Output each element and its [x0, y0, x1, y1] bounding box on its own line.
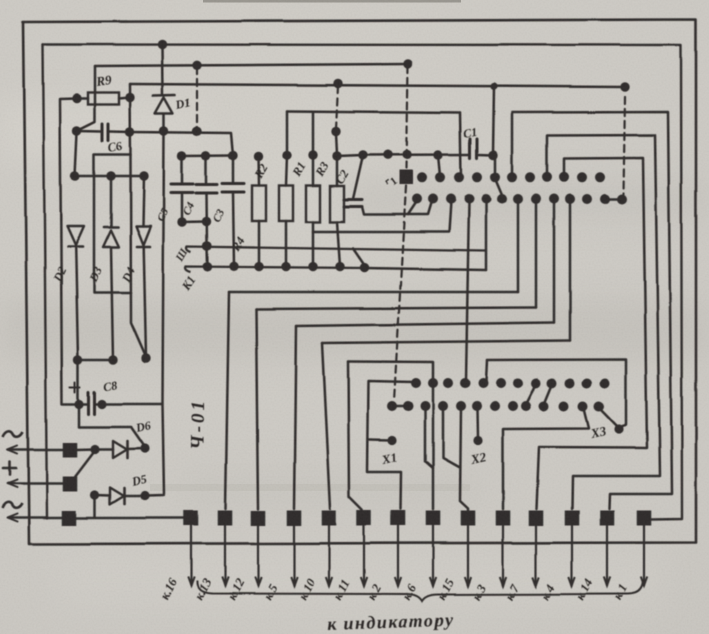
- wire D3 lead lower: [111, 247, 113, 360]
- node D3 bottom: [108, 355, 117, 364]
- capacitor C5: [181, 156, 184, 184]
- wire D4 lead lower: [144, 247, 146, 357]
- wire branch y154 to x94 down to y293: [94, 155, 131, 294]
- wire C1 right to pin: [478, 155, 496, 177]
- diode D5 cathode bar: [123, 488, 126, 504]
- wire P1 pin7 over top to pad k.14: [512, 112, 672, 509]
- node C5 top: [177, 151, 186, 160]
- wire C8 left gap lead: [83, 403, 88, 406]
- wire conn1 bottom pair bar: [605, 198, 622, 200]
- node end of bus y65: [403, 59, 412, 68]
- wire pad arrow k.6: [432, 525, 434, 586]
- wire lower rail y267 with hook: [186, 267, 365, 273]
- wire conn2 pi to X3: [487, 360, 626, 429]
- node D3 top: [106, 171, 115, 180]
- pad k.1: [637, 511, 652, 526]
- wire R4 top lead: [257, 156, 260, 186]
- wire pad arrow k.7: [535, 525, 537, 586]
- connector1 top row pins: [417, 172, 427, 182]
- wire R3 top lead: [336, 156, 339, 186]
- wire D6 anode lead: [95, 448, 113, 451]
- wire pad arrow k.15: [467, 525, 469, 586]
- wire pad arrow k.16: [190, 525, 192, 586]
- node y155 x388: [383, 150, 392, 159]
- wire pad k.15 riser: [460, 408, 468, 510]
- node C1 left: [433, 150, 442, 159]
- wire AC2 terminal line: [8, 516, 62, 519]
- label AC2 tilde: [2, 502, 22, 508]
- node lower rail x286: [281, 262, 290, 271]
- node bus y86 x494: [490, 83, 497, 90]
- pad k.4: [565, 511, 580, 526]
- wire W4 pad k.10 riser: [322, 343, 330, 509]
- wire D5 cathode lead: [125, 495, 145, 498]
- wire D1 bottom down to C8-right and D5 cathode: [147, 133, 164, 496]
- wire dashed x625: [624, 97, 626, 194]
- wire conn2 pin to k15 riser: [443, 408, 459, 467]
- pad k.16: [184, 511, 199, 526]
- diode D5 triangle: [110, 488, 124, 505]
- diode D4 triangle: [136, 226, 151, 245]
- diode D1 triangle: [155, 98, 173, 114]
- capacitor C2 plates: [344, 198, 362, 201]
- node R9 left terminal: [72, 94, 81, 103]
- node y155 x407 dashed: [402, 150, 411, 159]
- wire AC2 to pad k.16: [76, 517, 184, 520]
- wire R2 top lead: [286, 155, 287, 186]
- wire conn2 pin1 to pad k.2: [367, 381, 414, 509]
- resistor R2: [279, 186, 293, 222]
- wire W3 pad k.5 riser: [294, 326, 296, 509]
- diode D3 triangle: [103, 230, 119, 247]
- wire R9-left to x60 down to C8-left: [60, 99, 78, 405]
- wire conn2 pin jog to k6 line: [425, 408, 433, 468]
- pad k.7: [529, 511, 544, 526]
- outer border frame: [23, 20, 696, 545]
- diode D1 cathode bar: [153, 94, 175, 97]
- wire pad arrow k.14: [606, 525, 608, 586]
- wire plus terminal line: [8, 482, 63, 485]
- diode D2 cathode bar: [68, 245, 83, 248]
- pad k.14: [600, 511, 615, 526]
- capacitor C8 plus sign: [70, 386, 80, 388]
- wire dashed x197: [196, 67, 198, 129]
- wire second-border AC trace top and right to pad k.1: [43, 45, 682, 520]
- wire L1 left leg to R2 top: [286, 111, 289, 155]
- node D6 cathode: [140, 444, 149, 453]
- node lower rail x207: [203, 262, 212, 271]
- wire dashed x407 upper: [407, 66, 409, 168]
- wire pad arrow k.12: [257, 525, 259, 586]
- pad k.11: [357, 511, 372, 526]
- node y131 left: [72, 126, 81, 135]
- wire W4 riser to conn1 pin: [569, 201, 572, 341]
- wire C8 left leg down to D6 cathode: [79, 404, 145, 447]
- diode D6 triangle: [113, 441, 127, 458]
- wire R3 bottom lead: [337, 222, 340, 267]
- pad k.3: [496, 511, 511, 526]
- node R4 top: [254, 151, 263, 160]
- wire conn1-pin to conn2-pin x469: [466, 201, 469, 381]
- wire R4 bottom lead: [258, 221, 261, 267]
- wire C4 junction to lower rail: [206, 246, 209, 267]
- wire y131 from C6 right plate to C3 top: [110, 130, 131, 133]
- node D2 bottom: [73, 355, 82, 364]
- wire conn2 pi left leg: [486, 360, 487, 381]
- node R2 top: [282, 150, 291, 159]
- capacitor C3: [232, 156, 235, 184]
- capacitor C4: [205, 156, 208, 184]
- wire W2 horizontal: [256, 308, 536, 310]
- wire AC1 terminal line: [8, 448, 63, 451]
- node lower rail x234: [229, 262, 238, 271]
- node lower rail end: [360, 263, 369, 272]
- node junction on AC trace: [157, 40, 166, 49]
- pad k.5: [287, 511, 302, 526]
- node C8 right: [97, 399, 106, 408]
- wire stub x336 to R3 top node: [336, 133, 337, 154]
- wire pad arrow k.1: [643, 525, 645, 586]
- connector1 bottom row pins: [412, 194, 422, 204]
- wire D2 line upper: [75, 133, 77, 176]
- wire L1 mid leg to R1 top: [312, 112, 315, 155]
- pad k.10: [322, 511, 337, 526]
- wire R9 left lead: [77, 97, 88, 100]
- wire C2 bottom to pin2 riser: [362, 201, 432, 215]
- wire C1 right up to y86 bus: [493, 87, 494, 154]
- wire plus diagonal to D6 anode: [75, 452, 94, 477]
- wire conn1 diagonal pin6-pin6b: [495, 179, 503, 198]
- wire W3 horizontal: [296, 323, 554, 327]
- node D4 bottom: [141, 354, 150, 363]
- node dashed x338 bottom: [331, 126, 340, 135]
- wire bus y65: [95, 64, 408, 66]
- node D2 top: [70, 171, 79, 180]
- connector1 pin1 square pad: [400, 170, 414, 185]
- wire y232 from R1 bottom to pin3: [313, 201, 451, 232]
- wire W5 horizontal to pad k.6 drop: [348, 362, 433, 510]
- terminal AC2 arrowhead: [7, 514, 17, 522]
- wire pad arrow k.5: [293, 525, 295, 586]
- wire pad arrow k.4: [571, 525, 573, 586]
- wire y131 from D2-line to C6 left plate: [77, 130, 101, 133]
- pad k.2: [391, 511, 406, 526]
- node y131 D1 bottom: [159, 126, 168, 135]
- node R3 top: [332, 151, 341, 160]
- wire dashed x407 lower through pad 1: [394, 186, 406, 401]
- node bus y84 dashed drop: [333, 79, 342, 88]
- node C6 right junction: [125, 127, 134, 136]
- wire conn1-pin5 down x486: [485, 201, 488, 270]
- wire D5 anode to AC2 line: [94, 495, 97, 517]
- wire C5-C4 bottom link: [182, 220, 206, 223]
- terminal plus arrowhead: [7, 480, 17, 488]
- node D6 anode: [90, 445, 99, 454]
- wire C8 right lead to main vertical: [95, 403, 162, 406]
- wire D1 anode lead: [163, 114, 166, 129]
- wire R2 bottom lead: [285, 221, 288, 267]
- node on bus y65 at dashed drop: [192, 61, 201, 70]
- node D5 anode: [90, 490, 99, 499]
- diode D6 cathode bar: [126, 441, 129, 458]
- node X2: [473, 436, 482, 445]
- wire X1 stub: [369, 438, 392, 441]
- diode D3 cathode bar: [104, 226, 118, 229]
- wire pad arrow k.13: [224, 525, 226, 586]
- wire conn2 diagonal a: [526, 385, 536, 405]
- wire X3 diagonal: [599, 408, 618, 428]
- wire pad arrow k.2: [397, 525, 399, 586]
- wire L1 bus y112: [287, 111, 460, 113]
- wire W5 left leg to pad k.11: [348, 362, 362, 511]
- wire conn2 bottom pair bar: [392, 405, 408, 407]
- diode D2 triangle: [67, 226, 84, 245]
- capacitor C8 plates: [87, 392, 90, 414]
- wire W2 pad k.12 riser: [256, 309, 258, 509]
- wire D3 lead upper: [110, 176, 113, 226]
- pad AC1: [63, 443, 78, 458]
- wire W1 riser to conn1 pin: [517, 201, 520, 292]
- wire AC1 pad to D6 anode: [77, 448, 95, 451]
- capacitor C6 plates: [101, 124, 104, 141]
- wire pad arrow k.11: [363, 525, 365, 586]
- wire conn2 diagonal b: [544, 385, 552, 405]
- wire C8 left leg up to diode bottoms: [77, 360, 80, 404]
- wire bus y155 caps tops: [182, 154, 233, 157]
- wire rail diagonal link: [353, 249, 365, 267]
- diode D1 lead from AC trace: [161, 46, 164, 95]
- node D5 cathode: [140, 491, 149, 500]
- node bus y84 right end: [620, 82, 629, 91]
- node y131 dashed x197 bottom: [192, 127, 201, 136]
- node C2 top link: [358, 150, 367, 159]
- label AC1 tilde: [3, 431, 23, 437]
- diode D4 cathode bar: [137, 245, 150, 248]
- wire L1 right leg down to connector pin: [460, 113, 461, 178]
- wire W1 pad k.13 riser: [226, 292, 230, 509]
- node R1 top: [308, 150, 317, 159]
- wire pad arrow k.3: [502, 525, 504, 586]
- label plus sign: [3, 467, 16, 470]
- pad k.12: [251, 511, 266, 526]
- resistor R4: [252, 186, 266, 222]
- wire x130 vertical through R9 and C6 down to D4: [130, 84, 146, 357]
- wire bus y65 left corner to diagonal: [77, 66, 95, 131]
- wire W3 riser to conn1 pin: [553, 201, 556, 323]
- wire C1 left node to pin drop: [438, 155, 440, 176]
- brace to indicator: [197, 581, 643, 601]
- node lower rail x340: [335, 262, 344, 271]
- wire X2 stub: [476, 408, 479, 438]
- wire W2 riser to conn1 pin: [535, 201, 538, 308]
- node C4 upper-rail junction: [202, 241, 211, 250]
- wire R9 right lead: [119, 98, 130, 99]
- pad AC2: [62, 511, 77, 526]
- pad k.13: [218, 511, 233, 526]
- node C5 bottom: [177, 217, 186, 226]
- pad k.15: [461, 511, 476, 526]
- node lower rail x259: [254, 262, 263, 271]
- wire lower rail extension to x486: [365, 268, 486, 270]
- capacitor C1 plates: [469, 139, 472, 158]
- wire D6 cathode lead: [128, 447, 145, 450]
- terminal AC1 arrowhead: [7, 446, 17, 454]
- node C4 bottom: [202, 217, 211, 226]
- wire pad arrow k.10: [328, 525, 330, 586]
- wire P2 pin9 to pad k.4: [547, 135, 660, 509]
- resistor R9: [88, 93, 119, 105]
- connector2 bottom row pins: [387, 401, 397, 411]
- connector2 top row pins: [411, 378, 421, 388]
- wire pin1 diagonal to y214: [408, 201, 417, 215]
- node C1 right: [488, 150, 497, 159]
- node C3 top: [228, 151, 237, 160]
- wire diode top bus y176: [75, 175, 144, 178]
- wire W1 horizontal: [229, 291, 518, 294]
- resistor R1: [306, 186, 320, 223]
- wire y131 D1 bottom to corner x231 down to C3 top: [130, 132, 233, 156]
- wire R3top-C2top link: [337, 155, 363, 199]
- node X1: [387, 435, 396, 444]
- wire D2-D3 bottom bar: [78, 359, 113, 362]
- resistor R3: [330, 186, 344, 222]
- wire pad k.3 riser: [503, 408, 589, 509]
- wire D2 lead lower: [76, 247, 78, 360]
- node D4 top: [139, 171, 148, 180]
- wire R1 bottom lead: [312, 222, 315, 267]
- wire D4 lead upper: [143, 176, 144, 226]
- node lower rail x313: [308, 262, 317, 271]
- node X3: [614, 424, 623, 433]
- pad k.6: [426, 511, 441, 526]
- wire P3 pin10 to pad k.7: [537, 158, 648, 509]
- pad plus: [63, 477, 78, 492]
- wire dashed x338: [336, 86, 338, 129]
- wire second-border AC trace left leg: [43, 45, 47, 519]
- wire bus y84 from x130 to x625: [130, 84, 625, 87]
- wire R1 top lead: [312, 155, 315, 186]
- node R9 right terminal: [125, 93, 134, 102]
- wire upper rail y247 with hook: [187, 247, 487, 253]
- wire bus y155 right toward C1: [363, 153, 470, 156]
- node C4 top: [201, 151, 210, 160]
- wire D5 anode lead: [95, 494, 110, 497]
- node C8 left: [74, 399, 83, 408]
- wire W4 horizontal: [322, 341, 570, 344]
